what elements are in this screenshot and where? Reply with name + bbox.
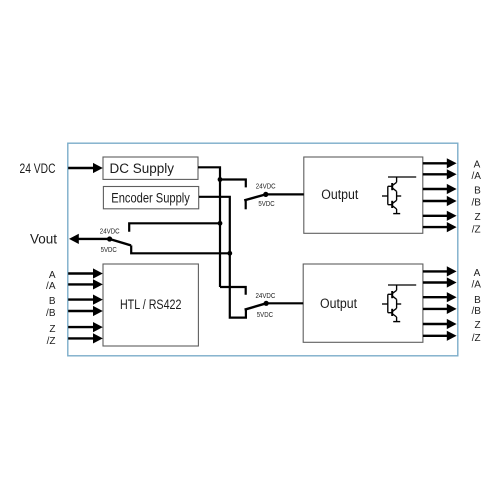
svg-text:Encoder Supply: Encoder Supply bbox=[111, 191, 190, 206]
svg-text:24 VDC: 24 VDC bbox=[20, 161, 56, 176]
switch S1 (top, 24VDC/5VDC select) bbox=[244, 192, 268, 210]
svg-text:Output: Output bbox=[321, 187, 358, 202]
labels output top A /A B /B Z /Z bbox=[471, 160, 481, 236]
svg-text:24VDC: 24VDC bbox=[256, 291, 276, 300]
output arrows top A /A B /B Z /Z bbox=[423, 158, 457, 232]
box HTL / RS422 bbox=[103, 264, 198, 346]
svg-text:/A: /A bbox=[46, 281, 56, 292]
box Output (bottom) bbox=[303, 264, 423, 342]
wire Encoder Supply output to 5VDC rail bbox=[199, 197, 246, 318]
transistor push-pull pair Q1/Q2 (top Output) bbox=[382, 177, 416, 213]
svg-text:Z: Z bbox=[49, 324, 55, 335]
box Output (top) bbox=[304, 157, 423, 233]
switch S3 (Vout select) bbox=[107, 236, 131, 245]
arrow 24 VDC input bbox=[68, 163, 103, 173]
wire branch to top switch 24VDC terminal bbox=[220, 180, 246, 188]
ground (top Output stage) bbox=[393, 213, 400, 215]
wire branch to Vout switch 5VDC terminal bbox=[131, 245, 230, 253]
wire branch to Vout switch 24VDC terminal bbox=[129, 223, 220, 232]
wire S1 common to top Output box bbox=[266, 193, 304, 195]
wire S2 common to bottom Output box bbox=[266, 302, 303, 304]
svg-text:Z: Z bbox=[474, 212, 480, 223]
svg-text:DC Supply: DC Supply bbox=[110, 161, 175, 176]
svg-text:A: A bbox=[474, 268, 481, 279]
junction 24VDC rail / Vout branch bbox=[218, 221, 223, 226]
wire branch to bottom switch 24VDC terminal bbox=[220, 287, 246, 295]
svg-text:/A: /A bbox=[471, 280, 481, 291]
outer enclosure border bbox=[68, 143, 458, 356]
junction 24VDC rail / top branch bbox=[218, 177, 223, 182]
svg-text:HTL / RS422: HTL / RS422 bbox=[120, 297, 182, 312]
svg-text:A: A bbox=[49, 270, 56, 281]
svg-text:/B: /B bbox=[471, 306, 481, 317]
svg-text:Z: Z bbox=[474, 320, 480, 331]
svg-text:24VDC: 24VDC bbox=[100, 227, 120, 236]
box Encoder Supply bbox=[103, 187, 198, 209]
svg-text:5VDC: 5VDC bbox=[258, 199, 275, 208]
labels input A /A B /B Z /Z bbox=[46, 270, 56, 347]
box DC Supply bbox=[103, 157, 198, 179]
svg-text:B: B bbox=[474, 295, 481, 306]
svg-text:/Z: /Z bbox=[472, 224, 481, 235]
svg-text:Vout: Vout bbox=[30, 232, 57, 247]
svg-text:/Z: /Z bbox=[47, 336, 56, 347]
junction 5VDC rail / Vout branch bbox=[227, 251, 232, 256]
ground (bottom Output stage) bbox=[393, 321, 400, 323]
svg-text:/Z: /Z bbox=[472, 333, 481, 344]
svg-text:5VDC: 5VDC bbox=[101, 245, 118, 254]
svg-text:B: B bbox=[49, 296, 56, 307]
svg-text:/B: /B bbox=[46, 308, 56, 319]
transistor push-pull pair Q3/Q4 (bottom Output) bbox=[382, 285, 416, 321]
svg-text:/B: /B bbox=[471, 197, 481, 208]
svg-text:24VDC: 24VDC bbox=[256, 182, 276, 191]
output arrows bottom A /A B /B Z /Z bbox=[423, 266, 457, 341]
wire DC Supply output to 24VDC rail bbox=[198, 167, 220, 287]
svg-text:A: A bbox=[474, 160, 481, 171]
svg-text:/A: /A bbox=[471, 171, 481, 182]
svg-text:B: B bbox=[474, 186, 481, 197]
svg-text:Output: Output bbox=[320, 296, 357, 311]
svg-text:5VDC: 5VDC bbox=[257, 310, 274, 319]
input arrows A /A B /B Z /Z bbox=[68, 268, 103, 343]
switch S2 (bottom, 24VDC/5VDC select) bbox=[245, 301, 269, 310]
arrow Vout output (points left) bbox=[69, 234, 109, 244]
labels output bottom A /A B /B Z /Z bbox=[471, 268, 481, 344]
